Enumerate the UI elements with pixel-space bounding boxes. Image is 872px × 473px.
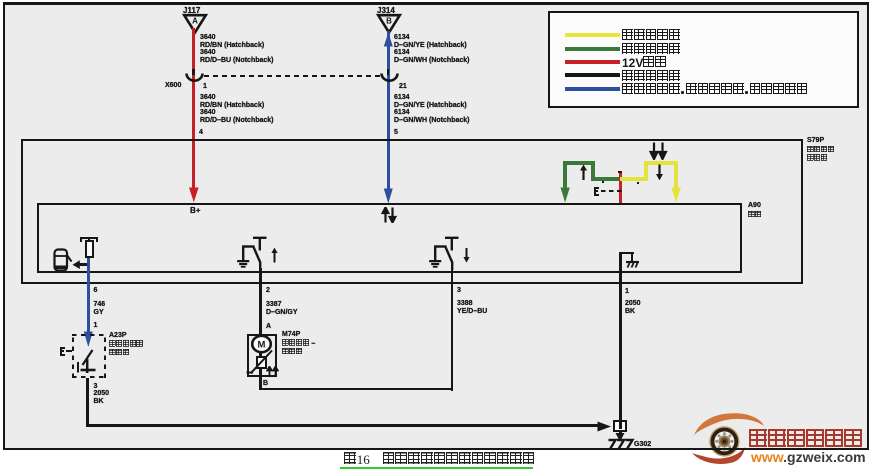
wire from switch2 down then left to motor pin B xyxy=(451,268,454,391)
A90 label xyxy=(748,202,761,210)
yellow mid vertical xyxy=(644,161,648,181)
page border right xyxy=(867,2,869,450)
wire labels 6134 block 1 xyxy=(394,34,469,64)
ground wire 2050 BK from latch to G302 xyxy=(86,378,90,427)
A23P labels xyxy=(109,332,127,340)
latch switch blade inside A23P xyxy=(76,345,102,377)
page border bottom xyxy=(3,448,869,450)
legend box xyxy=(548,11,859,108)
legend line: sensor/data (blue) xyxy=(565,87,620,91)
red arrowhead into B+ xyxy=(188,187,200,203)
double down arrows above yellow xyxy=(648,142,669,160)
legend line: 12V (red) xyxy=(565,60,620,64)
blue arrowhead down into A90 xyxy=(383,188,394,204)
window switch S79P box xyxy=(21,139,803,284)
dashed harness link X600 xyxy=(204,75,384,78)
yellow down-signal wire: horizontal from junction xyxy=(620,177,648,181)
X600 label xyxy=(165,82,181,90)
G302 chassis ground xyxy=(603,435,637,450)
tick below green horizontal xyxy=(602,181,604,184)
watermark logo lens + swooshes xyxy=(686,406,786,470)
legend line: body ground (black) xyxy=(565,73,620,77)
wire through motor xyxy=(259,334,262,377)
arrow below splice xyxy=(615,433,625,442)
pin 2 + wire 3387 labels xyxy=(266,287,270,295)
node B+ xyxy=(190,207,200,215)
yellow top horizontal xyxy=(644,161,678,165)
S79P label xyxy=(807,137,824,145)
blue arrowhead into A23P xyxy=(83,331,94,348)
wire blue 746 GY to latch xyxy=(87,258,90,333)
yellow right vertical with arrow into A90 xyxy=(674,161,678,191)
green wire lower horizontal to junction xyxy=(591,177,621,181)
arrow to car (lock indicator) xyxy=(78,263,89,266)
car icon (door open) xyxy=(52,247,73,273)
G302 label xyxy=(634,441,651,449)
motor thermal element xyxy=(256,356,267,370)
E (shown-in-position) marker with dashes to red xyxy=(594,187,596,197)
wire from switch1 down to motor pin A xyxy=(259,268,262,334)
G302 splice box xyxy=(613,420,627,432)
watermark url xyxy=(751,450,866,464)
door latch A23P dashed box xyxy=(72,334,106,378)
connector J117 label xyxy=(183,7,200,15)
legend line: down signal (yellow) xyxy=(565,33,620,37)
tick below yellow horizontal xyxy=(637,182,639,184)
switch 2 (window down) xyxy=(427,234,475,270)
X600 inline connector hook (left) xyxy=(192,69,195,75)
pin 1 (X600 left) xyxy=(203,83,207,91)
wire from motor B down xyxy=(259,377,262,389)
green up-signal wire: left vertical with arrow into A90 xyxy=(563,161,567,191)
green wire mid vertical xyxy=(591,161,595,181)
svg-text:B: B xyxy=(386,17,392,26)
page border top xyxy=(3,2,869,5)
wire labels 6134 block 2 xyxy=(394,94,469,124)
red 12V stub at junction xyxy=(619,173,622,204)
pin 3 + wire 3388 labels xyxy=(457,287,461,295)
window lockout knob component xyxy=(85,240,94,258)
switch 1 (window up) xyxy=(235,234,283,270)
window motor M74P box xyxy=(247,334,277,377)
wire labels 3640 RD/BN block 2 xyxy=(200,94,274,124)
page border left xyxy=(3,2,5,450)
connector J117 triangle A xyxy=(180,13,210,35)
node up/down arrows under J314 wire xyxy=(381,207,399,223)
green wire top horizontal xyxy=(563,161,595,165)
wire red 12V from J117 xyxy=(192,28,195,191)
pin 3 + 2050 BK labels under A23P xyxy=(94,383,98,391)
blue arrowhead up at J314 xyxy=(383,32,394,47)
watermark text (red) xyxy=(749,429,864,451)
motor pin B label xyxy=(263,380,268,388)
X600 inline connector hook (right) xyxy=(387,69,390,75)
pin 5 xyxy=(394,129,398,137)
logic module A90 box xyxy=(37,203,742,273)
pin 1 + wire 2050 BK labels xyxy=(625,288,629,296)
connector J314 label xyxy=(377,7,395,15)
caption green underline xyxy=(340,467,533,470)
pin 6 + wire 746 GY labels xyxy=(94,287,98,295)
figure caption xyxy=(344,452,535,468)
svg-text:A: A xyxy=(192,17,198,26)
internal ground (A90 right) wire 2050 xyxy=(619,252,622,433)
wire blue to J314 xyxy=(387,31,390,196)
motor mini up arrows xyxy=(266,366,279,377)
legend line: up signal (green) xyxy=(565,47,620,51)
pin 4 xyxy=(199,129,203,137)
connector J314 triangle B xyxy=(374,13,404,35)
pin 21 xyxy=(399,83,407,91)
arrowhead into G302 splice xyxy=(597,421,612,432)
black up arrow (raise) xyxy=(578,164,589,181)
black down arrow (lower) inside yellow loop xyxy=(654,164,665,181)
wire labels 3640 RD/BN block 1 xyxy=(200,34,274,64)
motor M circle xyxy=(251,335,272,354)
E marker at A23P xyxy=(60,347,62,357)
M74P labels xyxy=(282,331,300,339)
internal chassis ground symbol xyxy=(619,252,634,254)
